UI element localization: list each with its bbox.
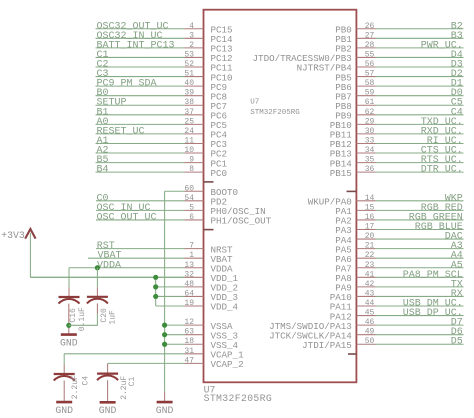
pin lead C16 top [68, 288, 70, 298]
pin 7 NRST (left) [96, 241, 233, 255]
pin 51 PC10 (left) [96, 69, 233, 83]
svg-text:9: 9 [189, 156, 194, 165]
pin 29 PB10 (right) [330, 117, 464, 131]
svg-text:27: 27 [365, 31, 375, 40]
IC U7 STM32F205RG body [204, 10, 357, 383]
pin 55 JTDO/TRACESSW0/PB3 (right) [253, 50, 464, 64]
svg-text:46: 46 [365, 318, 375, 327]
pin 49 JTCK/SWCLK/PA14 (right) [269, 327, 463, 341]
pin 20 PA4 (right) [335, 232, 463, 246]
pin 12 VSSA (left) [165, 318, 233, 332]
wire +3V3 rail to VDD_1 [30, 276, 184, 278]
pin 44 PA11 (right) [330, 298, 464, 312]
pin 62 PB9 (right) [335, 107, 463, 121]
ground GND under C1 [99, 402, 117, 416]
svg-text:62: 62 [365, 108, 375, 117]
pin 2 PC13 (left) [96, 40, 233, 54]
pin 22 PA6 (right) [335, 251, 463, 265]
pin lead C1 bottom [107, 380, 109, 401]
svg-text:59: 59 [365, 89, 375, 98]
pin 60 BOOT0 (left) [165, 184, 238, 198]
pin 24 PC4 (left) [96, 126, 228, 140]
svg-text:37: 37 [184, 108, 194, 117]
svg-text:3: 3 [189, 31, 194, 40]
svg-text:C1: C1 [128, 376, 137, 386]
pin 47 VCAP_2 (left) [108, 356, 244, 370]
pin 38 PC7 (left) [96, 98, 228, 112]
pin 41 PA8 (right) [335, 270, 463, 284]
svg-text:+3V3: +3V3 [1, 230, 25, 241]
svg-text:0.1uF: 0.1uF [78, 307, 87, 331]
svg-text:5: 5 [189, 203, 194, 212]
svg-text:8: 8 [189, 165, 194, 174]
svg-text:47: 47 [184, 356, 194, 365]
svg-text:30: 30 [365, 127, 375, 136]
svg-text:C4: C4 [81, 376, 90, 386]
junction VDDA / C20 [95, 265, 100, 270]
junction VSS_3 [162, 332, 167, 337]
svg-text:GND: GND [156, 405, 174, 416]
pin 64 VDD_3 (left) [156, 289, 238, 303]
pin lead C1 top [107, 364, 109, 374]
pin 63 VSS_3 (left) [165, 328, 238, 342]
svg-text:PC0: PC0 [211, 168, 228, 179]
svg-text:25: 25 [184, 117, 194, 126]
capacitor C4 2.2uF [54, 374, 91, 399]
junction VSSA [162, 323, 167, 328]
svg-text:GND: GND [60, 338, 78, 349]
wire +3V3 vertical [29, 233, 31, 278]
pin 33 PB12 (right) [330, 136, 464, 150]
svg-text:61: 61 [365, 98, 375, 107]
svg-text:VDDA: VDDA [97, 260, 121, 271]
svg-text:VDD_4: VDD_4 [211, 302, 239, 313]
pin 25 PC5 (left) [96, 117, 228, 131]
ground GND under C4 [55, 402, 73, 416]
svg-text:40: 40 [184, 79, 194, 88]
svg-text:4: 4 [189, 22, 194, 31]
pin lead C4 top [63, 365, 65, 375]
svg-text:44: 44 [365, 299, 375, 308]
svg-text:32: 32 [184, 270, 194, 279]
wire BOOT0/VSS vertical to GND [164, 191, 166, 392]
pin 34 PB13 (right) [330, 146, 464, 160]
svg-text:2: 2 [189, 41, 194, 50]
svg-text:13: 13 [184, 261, 194, 270]
svg-text:57: 57 [365, 70, 375, 79]
pin 45 PA12 (right) [330, 308, 464, 322]
wire C16 to C20 bottom [69, 324, 98, 326]
junction VDD_3 [153, 294, 158, 299]
pin lead C20 bottom [96, 303, 98, 313]
pin 58 PB6 (right) [335, 79, 463, 93]
svg-text:STM32F205RG: STM32F205RG [204, 393, 273, 404]
svg-text:21: 21 [365, 242, 375, 251]
gate separator tick left lower [204, 229, 214, 231]
svg-text:OSC_OUT_UC: OSC_OUT_UC [97, 212, 157, 223]
pin 18 VSS_4 (left) [165, 337, 239, 351]
svg-text:22: 22 [365, 251, 375, 260]
svg-text:PH1/OSC_OUT: PH1/OSC_OUT [211, 216, 272, 227]
svg-text:12: 12 [184, 318, 194, 327]
pin 50 JTDI/PA15 (right) [302, 337, 463, 351]
pin 28 PB2 (right) [335, 40, 463, 54]
pin 37 PC6 (left) [96, 107, 228, 121]
wire VDD tie vertical [155, 277, 157, 306]
pin 54 PD2 (left) [96, 193, 227, 207]
pin 21 PA5 (right) [335, 241, 463, 255]
svg-text:36: 36 [365, 165, 375, 174]
gate separator tick left upper [204, 181, 214, 183]
pin 56 NJTRST/PB4 (right) [297, 59, 464, 73]
svg-text:1: 1 [189, 251, 194, 260]
svg-text:52: 52 [184, 60, 194, 69]
pin 52 PC11 (left) [96, 59, 234, 73]
svg-text:43: 43 [365, 289, 375, 298]
junction VDD_2 [153, 284, 158, 289]
svg-text:35: 35 [365, 156, 375, 165]
junction VSS_4 [162, 342, 167, 347]
svg-text:6: 6 [189, 213, 194, 222]
gate separator tick right lower [348, 353, 356, 355]
supply +3V3 symbol [1, 229, 35, 241]
wire VCAP_2 lead down to C1 [107, 362, 109, 365]
svg-text:48: 48 [184, 280, 194, 289]
pin lead C4 bottom [63, 381, 65, 401]
svg-text:19: 19 [184, 299, 194, 308]
svg-text:54: 54 [184, 194, 194, 203]
svg-text:51: 51 [184, 70, 194, 79]
refdes U7 inside [250, 99, 300, 117]
svg-text:24: 24 [184, 127, 194, 136]
pin lead C16 bottom [68, 304, 70, 334]
svg-text:63: 63 [184, 328, 194, 337]
wire C20 bottom to GND net [96, 314, 98, 326]
pin 43 PA10 (right) [330, 289, 464, 303]
svg-text:GND: GND [99, 405, 117, 416]
svg-text:STM32F205RG: STM32F205RG [250, 109, 300, 117]
pin 30 PB11 (right) [330, 126, 464, 140]
svg-text:49: 49 [365, 328, 375, 337]
pin 19 VDD_4 (left) [156, 299, 239, 313]
pin 11 PC3 (left) [96, 136, 228, 150]
svg-text:38: 38 [184, 98, 194, 107]
pin 57 PB5 (right) [335, 69, 463, 83]
svg-text:D5: D5 [451, 337, 463, 348]
pin 15 PA1 (right) [335, 203, 463, 217]
svg-text:60: 60 [184, 184, 194, 193]
pin 61 PB8 (right) [335, 98, 463, 112]
pin 42 PA9 (right) [335, 279, 463, 293]
svg-text:33: 33 [365, 136, 375, 145]
svg-text:7: 7 [189, 242, 194, 251]
svg-text:VCAP_2: VCAP_2 [211, 359, 244, 370]
svg-text:34: 34 [365, 146, 375, 155]
svg-text:U7: U7 [250, 99, 259, 107]
svg-text:45: 45 [365, 309, 375, 318]
wire VDDA lead down to C20 [96, 268, 98, 288]
pin 13 VDDA (left) [69, 260, 233, 274]
capacitor C16 0.1uF [59, 297, 88, 331]
ground GND under VSS line [156, 402, 174, 416]
svg-text:DTR_UC.: DTR_UC. [421, 165, 463, 176]
svg-text:31: 31 [184, 347, 194, 356]
capacitor C1 2.2uF [97, 374, 137, 400]
svg-text:GND: GND [55, 405, 73, 416]
svg-text:64: 64 [184, 289, 194, 298]
pin 5 PH0/OSC_IN (left) [96, 203, 266, 217]
pin 36 PB15 (right) [330, 165, 464, 179]
svg-text:23: 23 [365, 261, 375, 270]
svg-text:29: 29 [365, 117, 375, 126]
gate separator tick right upper [347, 190, 357, 192]
svg-text:15: 15 [365, 203, 375, 212]
pin 46 JTMS/SWDIO/PA13 (right) [269, 318, 463, 332]
pin 6 PH1/OSC_OUT (left) [96, 212, 272, 226]
svg-text:11: 11 [184, 136, 194, 145]
svg-text:58: 58 [365, 79, 375, 88]
pin 10 PC2 (left) [96, 146, 228, 160]
svg-text:2.2uF: 2.2uF [120, 376, 129, 400]
pin 9 PC1 (left) [96, 155, 228, 169]
pin 4 PC15 (left) [96, 21, 233, 35]
wire VCAP_1 lead down to C4 [63, 354, 65, 365]
pin lead C20 top [96, 287, 98, 296]
pin 59 PB7 (right) [335, 88, 463, 102]
svg-text:17: 17 [365, 223, 375, 232]
svg-text:42: 42 [365, 280, 375, 289]
svg-text:53: 53 [184, 50, 194, 59]
pin 26 PB0 (right) [335, 21, 463, 35]
pin 32 VDD_1 (left) [30, 270, 238, 284]
svg-text:16: 16 [365, 213, 375, 222]
svg-text:20: 20 [365, 232, 375, 241]
pin 1 VBAT (left) [88, 251, 233, 265]
pin 16 PA2 (right) [335, 212, 463, 226]
svg-text:1uF: 1uF [109, 310, 118, 325]
capacitor C20 1uF [87, 297, 118, 325]
svg-text:26: 26 [365, 22, 375, 31]
pin 23 PA7 (right) [335, 260, 463, 274]
svg-text:PB15: PB15 [330, 168, 352, 179]
wire VDDA lead down to C16 [68, 268, 70, 288]
svg-text:JTDI/PA15: JTDI/PA15 [302, 340, 352, 351]
svg-text:10: 10 [184, 146, 194, 155]
pin 8 PC0 (left) [96, 165, 228, 179]
pin 53 PC12 (left) [96, 50, 233, 64]
pin 27 PB1 (right) [335, 31, 463, 45]
junction VDD_1 [153, 275, 158, 280]
pin 31 VCAP_1 (left) [64, 347, 244, 361]
pin 39 PC8 (left) [96, 88, 228, 102]
svg-text:55: 55 [365, 50, 375, 59]
svg-text:2.2uF: 2.2uF [71, 375, 80, 399]
svg-text:14: 14 [365, 194, 375, 203]
svg-text:18: 18 [184, 337, 194, 346]
svg-text:56: 56 [365, 60, 375, 69]
pin 35 PB14 (right) [330, 155, 464, 169]
pin 48 VDD_2 (left) [156, 280, 238, 294]
pin 40 PC9 (left) [96, 79, 228, 93]
svg-text:28: 28 [365, 41, 375, 50]
svg-text:41: 41 [365, 270, 375, 279]
svg-text:B4: B4 [97, 165, 109, 176]
refdes U7 below box [204, 384, 273, 404]
svg-text:50: 50 [365, 337, 375, 346]
pin lead GND mid [164, 392, 166, 401]
pin 17 PA3 (right) [335, 222, 463, 236]
ground GND under C16 [60, 335, 78, 349]
svg-text:C16: C16 [69, 308, 78, 323]
junction C16 bottom [66, 323, 71, 328]
pin 14 WKUP/PA0 (right) [308, 193, 464, 207]
pin 3 PC14 (left) [96, 31, 234, 45]
svg-text:39: 39 [184, 89, 194, 98]
